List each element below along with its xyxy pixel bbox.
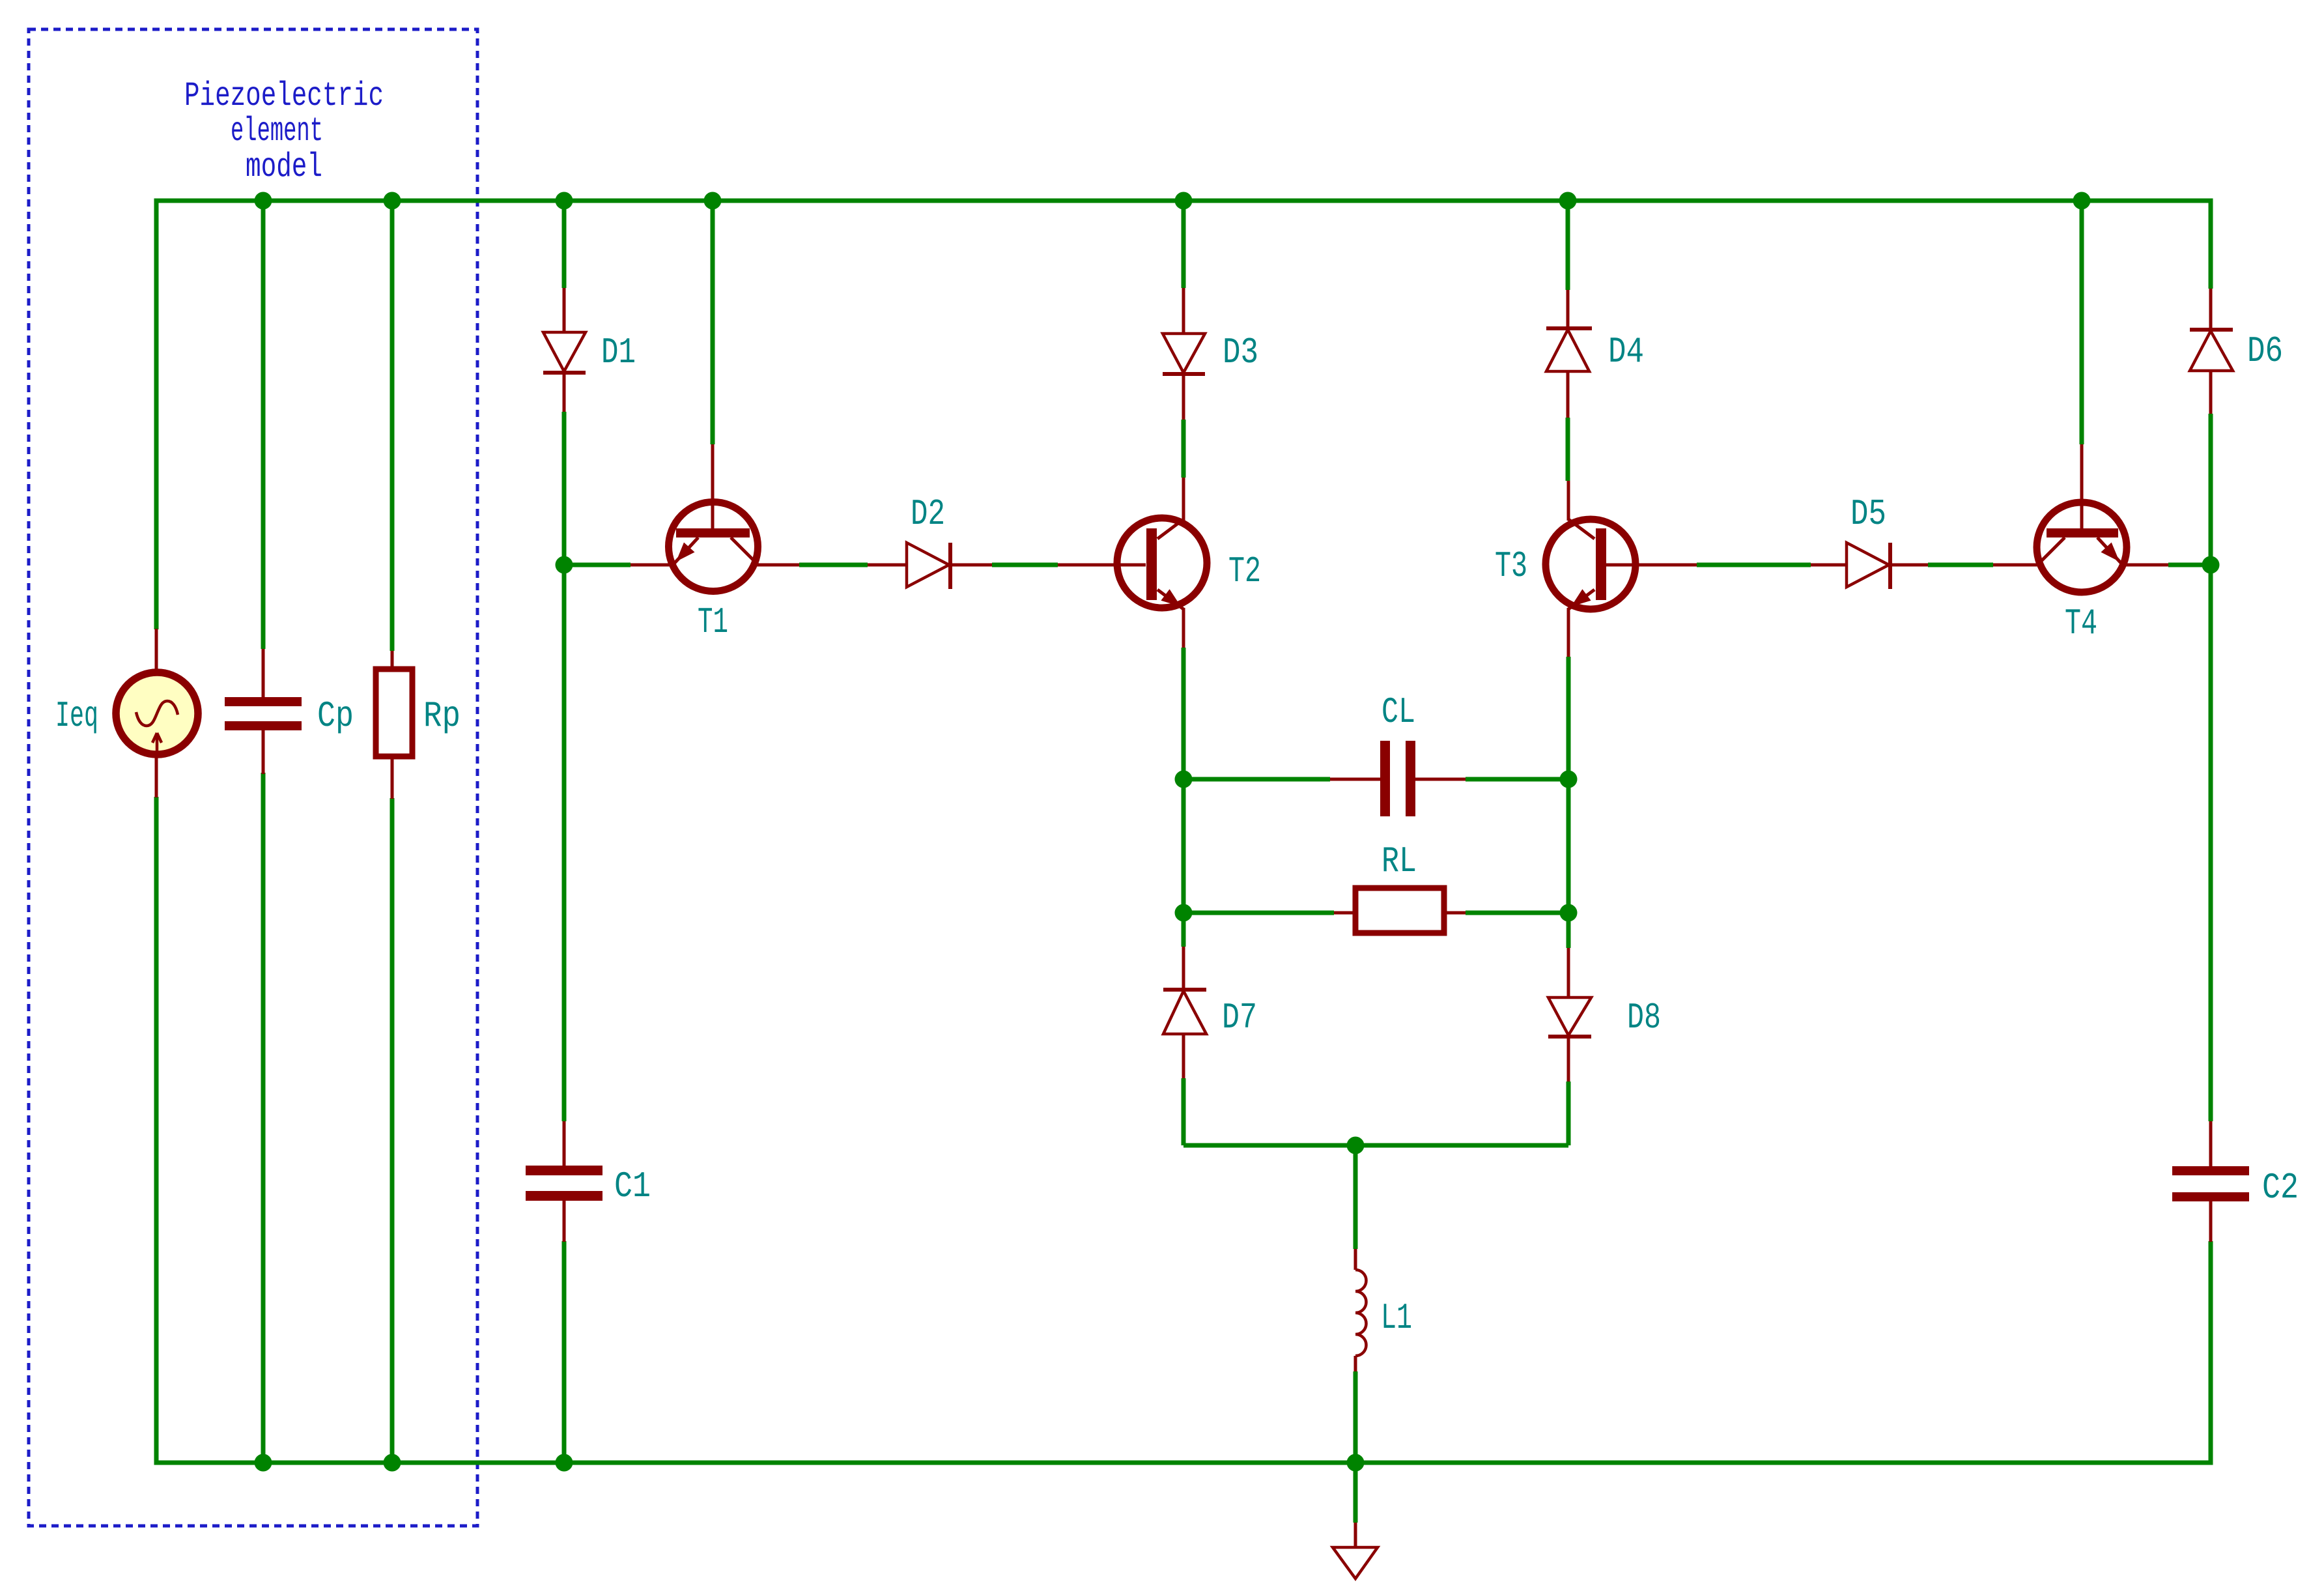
junction: D1 top [556, 192, 573, 210]
svg-text:D5: D5 [1850, 493, 1886, 535]
svg-text:RL: RL [1382, 840, 1417, 882]
junction: RL left [1175, 904, 1193, 922]
junction: L1 / ground node [1347, 1454, 1365, 1472]
wire: D5 to T4 [1928, 563, 1993, 567]
transistor T4 (PNP mirrored) [1993, 444, 2168, 592]
svg-text:T2: T2 [1228, 551, 1261, 592]
wire: T4 emitter to right rail [2168, 563, 2211, 567]
junction: Cp top [255, 192, 272, 210]
svg-text:C2: C2 [2262, 1167, 2299, 1209]
junction: L1 top rail [1347, 1137, 1365, 1154]
resistor RL (horizontal) [1334, 888, 1466, 933]
wire: T3 emitter down to CL/RL rails [1566, 657, 1571, 1145]
wire: L1 branch [1353, 1145, 1358, 1523]
svg-text:L1: L1 [1381, 1297, 1412, 1339]
svg-text:C1: C1 [614, 1166, 651, 1207]
transistor T1 (PNP) [631, 444, 799, 592]
dashed box: Piezoelectric element model [29, 29, 477, 1526]
wire: D1/C1 branch vertical [562, 201, 567, 1463]
wire: Ieq branch vertical [154, 201, 159, 1463]
junction: Rp bottom [384, 1454, 401, 1472]
ground [1333, 1523, 1378, 1579]
wire: CL rail [1183, 777, 1568, 782]
junction: D3 top [1175, 192, 1193, 210]
diode D5 (pointing right) [1811, 543, 1928, 589]
diode D6 (pointing up) [2190, 289, 2233, 414]
wire: D4 branch [1566, 201, 1570, 290]
svg-text:D7: D7 [1222, 997, 1257, 1039]
svg-text:Cp: Cp [317, 695, 354, 737]
junction: T4 base top [2073, 192, 2091, 210]
junction: CL left [1175, 771, 1193, 788]
wire: T1 collector to D2 [799, 563, 868, 567]
capacitor C2 [2172, 1121, 2249, 1242]
junction: D4 top [1559, 192, 1577, 210]
inductor L1 [1355, 1249, 1367, 1371]
svg-text:D3: D3 [1223, 332, 1258, 373]
junction: T1 emitter / D1 rail [556, 556, 573, 574]
diode D2 (pointing right) [868, 543, 992, 589]
wire: Rp branch vertical [390, 201, 395, 1463]
svg-text:element: element [231, 112, 323, 150]
svg-text:T1: T1 [698, 601, 728, 643]
wire: T3 base to D5 [1697, 563, 1811, 567]
wire: Cp branch vertical [261, 201, 266, 1463]
diode D3 (pointing down) [1163, 288, 1205, 420]
note text Piezoelectric element model [184, 77, 384, 186]
wire: D2 to T2 base [992, 563, 1058, 567]
svg-text:D4: D4 [1608, 331, 1644, 373]
capacitor C1 [526, 1121, 602, 1242]
wire: T2 emitter down to CL/RL rails [1182, 648, 1186, 1145]
svg-text:Piezoelectric: Piezoelectric [184, 77, 384, 115]
wire: top bus [154, 199, 2213, 203]
wire: T1 base drop [711, 201, 715, 444]
svg-text:Ieq: Ieq [55, 695, 98, 737]
wire: D7/D8 bottom connector [1183, 1143, 1568, 1148]
svg-text:T4: T4 [2065, 603, 2097, 644]
svg-text:D8: D8 [1627, 997, 1661, 1039]
junction: C1 bottom [556, 1454, 573, 1472]
wire: D3 branch [1182, 201, 1186, 288]
resistor Rp [376, 651, 412, 799]
diode D1 (pointing down) [543, 288, 586, 412]
wire: RL rail [1183, 911, 1568, 915]
wire: D4 to T3 collector [1566, 418, 1570, 481]
junction: CL right [1560, 771, 1578, 788]
svg-text:T3: T3 [1495, 545, 1527, 587]
diode D8 (pointing down) [1548, 948, 1591, 1082]
svg-text:D6: D6 [2247, 330, 2283, 372]
diode D7 (pointing up) [1163, 947, 1206, 1078]
junction: Rp top [384, 192, 401, 210]
wire: T4 base drop [2080, 201, 2084, 444]
wire: bottom bus [154, 1461, 2213, 1465]
wire: D3 to T2 collector [1182, 420, 1186, 478]
svg-text:CL: CL [1382, 691, 1415, 733]
junction: T1 base top [704, 192, 722, 210]
svg-text:D2: D2 [911, 493, 945, 535]
svg-text:Rp: Rp [423, 695, 461, 737]
svg-text:D1: D1 [601, 332, 636, 373]
svg-text:model: model [246, 148, 322, 186]
capacitor CL (horizontal) [1330, 741, 1466, 816]
transistor T3 (NPN mirrored, base right) [1546, 481, 1697, 657]
junction: RL right [1560, 904, 1578, 922]
junction: T4 emitter / right rail [2202, 556, 2220, 574]
capacitor Cp [225, 649, 302, 774]
transistor T2 (NPN, base left) [1058, 478, 1207, 648]
diode D4 (pointing up) [1546, 290, 1592, 418]
wire: T1 emitter to D1 rail [564, 563, 631, 567]
wire: right rail segments (D6 / C2) [2209, 201, 2213, 1463]
junction: Cp bottom [255, 1454, 272, 1472]
current source Ieq [116, 629, 198, 797]
